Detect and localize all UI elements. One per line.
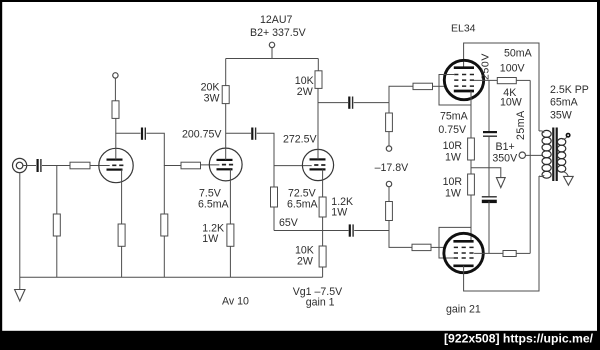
- secondary bottom lead: [562, 172, 568, 177]
- wire C3 to V3 grid: [257, 133, 312, 165]
- svg-text:1W: 1W: [445, 187, 461, 199]
- secondary top lead and output dot: [562, 134, 570, 140]
- svg-text:10R: 10R: [443, 176, 463, 188]
- svg-text:250V: 250V: [480, 53, 492, 80]
- bias feed resistor lower: [386, 187, 393, 231]
- supply rail B2+: [226, 58, 319, 60]
- triode V3: [302, 149, 333, 180]
- grid stopper resistor upper EL34: [413, 83, 445, 89]
- svg-text:35W: 35W: [550, 110, 572, 122]
- svg-text:B1+: B1+: [496, 141, 515, 153]
- grid leak resistor stage2: [161, 166, 168, 278]
- V3 plate node wire to C5: [318, 102, 348, 104]
- capacitor C5 upper coupling: [349, 97, 352, 109]
- border frame left: [0, 0, 2, 332]
- grid stopper resistor stage1: [70, 162, 110, 169]
- supply terminal stage1: [113, 73, 118, 78]
- upper EL34 cathode wire: [470, 91, 472, 138]
- cathode resistor stage1 1.2K 1W: [118, 170, 125, 278]
- jack sleeve wire to ground: [19, 172, 21, 289]
- ground symbol main: [15, 290, 25, 302]
- wire resistor to supply terminal: [114, 78, 116, 101]
- svg-text:6.5mA: 6.5mA: [198, 198, 230, 210]
- B1+ terminal: [519, 152, 525, 158]
- B1+ feed wire down: [529, 80, 531, 253]
- lower cathode wire: [470, 195, 472, 241]
- bias terminal lower: [386, 181, 391, 186]
- screen wire upper to 4K: [474, 79, 497, 81]
- svg-text:65mA: 65mA: [550, 97, 579, 109]
- capacitor C1: [38, 159, 41, 172]
- svg-text:12AU7: 12AU7: [260, 14, 292, 26]
- svg-text:1W: 1W: [445, 151, 461, 163]
- svg-text:0.75V: 0.75V: [438, 124, 467, 136]
- cathode resistor stage2 1.2K 1W: [227, 169, 234, 277]
- svg-text:1W: 1W: [331, 207, 347, 219]
- output transformer T1 secondary: [557, 139, 565, 173]
- wire 10K to rail: [317, 59, 319, 71]
- lower EL34 suppressor-to-cathode link: [439, 227, 471, 258]
- svg-text:Av 10: Av 10: [222, 295, 249, 307]
- capacitor C4 lower coupling: [350, 224, 353, 236]
- svg-text:6.5mA: 6.5mA: [287, 198, 319, 210]
- svg-text:50mA: 50mA: [504, 47, 533, 59]
- capacitor screen upper: [483, 132, 497, 136]
- ground bus: [20, 276, 323, 278]
- svg-text:2.5K PP: 2.5K PP: [550, 84, 589, 96]
- cathode resistor 10R 1W upper: [468, 138, 475, 160]
- resistor 10K 2W bottom: [319, 231, 326, 278]
- svg-text:2W: 2W: [297, 255, 313, 267]
- grid stopper resistor stage2: [181, 162, 219, 169]
- wire between caps: [488, 137, 490, 196]
- svg-text:EL34: EL34: [451, 22, 476, 34]
- ground symbol secondary: [564, 176, 574, 185]
- svg-text:272.5V: 272.5V: [283, 134, 318, 146]
- V2 plate node wire to C3: [226, 132, 251, 134]
- 65V node wire: [274, 230, 349, 232]
- ground symbol cathode: [496, 178, 505, 188]
- grid leak resistor stage1 (node A to ground): [53, 166, 60, 278]
- svg-text:–17.8V: –17.8V: [375, 162, 410, 174]
- svg-text:2W: 2W: [297, 86, 313, 98]
- lower bias node wire to grid stopper: [389, 231, 412, 248]
- svg-text:[922x508] https://upic.me/: [922x508] https://upic.me/: [444, 332, 594, 346]
- V3 cathode resistor 1.2K 1W: [319, 169, 326, 230]
- cathode resistor 10R 1W lower: [468, 174, 475, 195]
- screen decoupling line: [488, 80, 490, 131]
- wire C2 to grid node of V2: [146, 133, 181, 165]
- upper EL34 plate wire to transformer: [464, 43, 539, 131]
- svg-text:gain 1: gain 1: [306, 297, 335, 309]
- border frame right: [597, 0, 600, 332]
- B1+ wire to center tap: [525, 154, 543, 156]
- svg-text:3W: 3W: [204, 92, 220, 104]
- svg-text:1W: 1W: [202, 233, 218, 245]
- triode V2: [209, 148, 242, 181]
- triode V1: [99, 148, 133, 182]
- svg-text:25mA: 25mA: [515, 110, 527, 140]
- V3 plate wire up: [317, 88, 319, 159]
- resistor 20K 3W: [222, 86, 229, 104]
- wire jack to C1: [23, 165, 36, 167]
- svg-text:B2+ 337.5V: B2+ 337.5V: [250, 27, 307, 39]
- bottom black bar: [0, 331, 600, 350]
- wire 20K to rail: [225, 59, 227, 86]
- resistor 4K 10W: [497, 78, 530, 84]
- upper EL34 suppressor-to-cathode link: [439, 75, 471, 106]
- svg-text:350V: 350V: [492, 152, 518, 164]
- V1 plate wire up: [115, 118, 117, 159]
- capacitor C2: [142, 128, 145, 140]
- wire cap to lower screen: [488, 201, 490, 253]
- lower EL34 V5: [444, 233, 483, 272]
- capacitor C3: [252, 128, 255, 140]
- svg-text:75mA: 75mA: [440, 110, 469, 122]
- border frame top: [0, 0, 600, 2]
- resistor 10K 2W top: [315, 71, 322, 89]
- output transformer T1 primary: [539, 130, 551, 178]
- wire C4 to lower bias node: [354, 230, 389, 232]
- node plate V1, wire to C2: [115, 132, 140, 134]
- plate load resistor stage1: [112, 101, 119, 119]
- svg-text:10R: 10R: [443, 140, 463, 152]
- grid leak resistor V3 (to 65V node): [271, 166, 278, 231]
- svg-text:65V: 65V: [279, 217, 299, 229]
- svg-text:gain 21: gain 21: [446, 303, 481, 315]
- upper EL34 V4: [444, 60, 483, 99]
- input jack J1: [13, 158, 27, 172]
- wire C1 to grid resistor, node A: [42, 165, 70, 167]
- V2 plate wire up to 20K: [225, 104, 227, 160]
- upper bias node wires: [389, 86, 413, 102]
- svg-text:100V: 100V: [500, 63, 526, 75]
- transformer core: [552, 128, 558, 182]
- grid stopper resistor lower EL34: [412, 244, 445, 250]
- lower screen resistor: [474, 251, 530, 257]
- lower EL34 plate wire to transformer: [464, 176, 539, 291]
- capacitor screen lower electrolytic: [482, 197, 497, 202]
- svg-text:200.75V: 200.75V: [182, 129, 222, 141]
- svg-text:10W: 10W: [500, 97, 522, 109]
- B2+ terminal: [269, 42, 274, 58]
- wire C5 to upper bias node: [354, 102, 389, 104]
- bias feed resistor upper: [386, 103, 393, 146]
- cathode center tap wire to ground: [471, 160, 501, 178]
- bias terminal upper: [386, 146, 391, 151]
